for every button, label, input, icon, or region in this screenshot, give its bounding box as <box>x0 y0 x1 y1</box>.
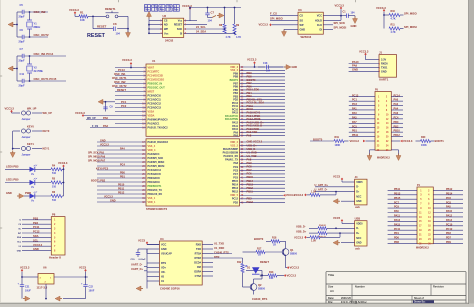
svg-text:PB14: PB14 <box>232 184 239 187</box>
chip U4 pins <box>147 243 213 283</box>
svg-text:U3: U3 <box>298 8 302 12</box>
svg-text:PC11: PC11 <box>33 225 40 229</box>
svg-text:C6: C6 <box>20 28 24 32</box>
svg-text:U6: U6 <box>43 266 47 270</box>
svg-text:U_ART_D-: U_ART_D- <box>315 188 328 192</box>
svg-text:TXD1: TXD1 <box>381 66 388 69</box>
svg-text:KEY0: KEY0 <box>43 129 50 133</box>
svg-text:GND: GND <box>110 200 116 203</box>
svg-text:VCC3.3: VCC3.3 <box>100 144 109 147</box>
svg-text:PC10: PC10 <box>446 223 453 226</box>
svg-text:PA5/SPI_SCK: PA5/SPI_SCK <box>148 157 164 160</box>
chip U1 part B <box>146 139 240 211</box>
svg-text:PC4: PC4 <box>394 116 399 119</box>
capacitor C7a <box>19 47 25 62</box>
svg-text:PB2/BOOT1: PB2/BOOT1 <box>148 185 162 188</box>
svg-text:SCL: SCL <box>33 238 39 242</box>
regulator U6 1117-3.3 <box>37 266 55 290</box>
svg-text:Drawn By:: Drawn By: <box>414 302 426 304</box>
svg-text:File:: File: <box>328 301 333 304</box>
svg-text:PD2: PD2 <box>233 201 238 204</box>
svg-text:PA6: PA6 <box>394 112 399 115</box>
svg-text:1K: 1K <box>258 254 261 257</box>
wire <box>189 7 191 21</box>
svg-text:GND: GND <box>351 24 357 28</box>
net BOOT0 <box>310 138 334 142</box>
wire <box>13 148 42 150</box>
svg-text:RESET: RESET <box>97 25 107 29</box>
U1 right net labels A <box>247 71 265 137</box>
svg-text:PD6: PD6 <box>394 237 399 240</box>
net SPI_MOSI <box>404 25 417 29</box>
label RESET <box>87 33 106 39</box>
power VCC3.3 <box>350 139 376 143</box>
jumper KEY0 <box>21 129 30 139</box>
svg-text:PA15: PA15 <box>394 223 401 226</box>
svg-text:NO: NO <box>164 24 168 27</box>
power VCC3.3 <box>284 274 297 278</box>
svg-text:PC1: PC1 <box>121 100 127 104</box>
svg-text:PC8: PC8 <box>446 201 451 204</box>
svg-text:CTS#: CTS# <box>195 275 202 278</box>
svg-text:Q2: Q2 <box>258 283 262 287</box>
svg-text:PA4: PA4 <box>394 108 399 111</box>
svg-text:U_ART_D+: U_ART_D+ <box>315 183 329 187</box>
svg-text:OSC_IN1: OSC_IN1 <box>114 72 126 76</box>
svg-text:RESET: RESET <box>174 24 183 27</box>
svg-text:USB_D-: USB_D- <box>247 147 257 151</box>
chip U4 CH340 <box>159 237 202 290</box>
svg-text:CH340_RTS: CH340_RTS <box>252 297 267 301</box>
connector P8 pins <box>17 216 56 252</box>
svg-text:PB3: PB3 <box>33 216 39 220</box>
svg-text:VCC3.3: VCC3.3 <box>350 139 360 143</box>
svg-text:R1: R1 <box>80 11 84 15</box>
ground <box>333 199 355 204</box>
wire <box>13 130 42 132</box>
svg-text:PA10: PA10 <box>352 60 359 64</box>
svg-text:PC8: PC8 <box>233 169 238 172</box>
connector USB2 <box>355 217 367 251</box>
svg-text:VCC5: VCC5 <box>79 266 87 270</box>
wire <box>17 55 66 57</box>
chip U1 right pins A <box>225 66 285 138</box>
wire <box>17 11 48 13</box>
transistor Q2 <box>243 276 266 291</box>
wire <box>63 168 65 196</box>
power VCC3.3 <box>75 111 115 117</box>
net OSC_IN1 <box>114 72 126 76</box>
svg-text:VSS_1: VSS_1 <box>148 197 156 200</box>
svg-text:DTR#: DTR# <box>194 257 201 260</box>
svg-text:VCC: VCC <box>161 243 166 246</box>
net UART_D- <box>131 263 147 267</box>
power VCC3.3 <box>335 3 345 16</box>
svg-text:PC12: PC12 <box>232 198 239 201</box>
svg-text:PA4: PA4 <box>120 148 125 151</box>
svg-text:SPI_MOSI: SPI_MOSI <box>334 25 347 29</box>
svg-text:Q1: Q1 <box>290 248 294 252</box>
svg-text:PA0: PA0 <box>394 99 399 102</box>
transistor Q1 <box>282 248 297 256</box>
svg-text:104: 104 <box>116 32 121 36</box>
svg-text:F_CS: F_CS <box>270 12 277 16</box>
svg-text:RTS: RTS <box>161 262 166 265</box>
net OSC_OUT2 <box>34 33 50 37</box>
LED row R4 <box>5 165 64 176</box>
svg-text:PA8: PA8 <box>247 157 252 161</box>
svg-text:C22: C22 <box>89 286 94 289</box>
svg-text:PA10/U1_RX: PA10/U1_RX <box>224 155 239 158</box>
svg-text:U1: U1 <box>152 59 156 63</box>
svg-text:RXD0: RXD0 <box>381 63 388 66</box>
wire <box>16 12 18 37</box>
svg-text:10K: 10K <box>80 18 85 22</box>
svg-text:KEY1: KEY1 <box>27 142 34 146</box>
svg-text:4.7K: 4.7K <box>226 36 231 39</box>
resistor R17 <box>243 248 284 257</box>
power VCC3.3 <box>69 8 79 16</box>
svg-text:R18: R18 <box>272 237 277 240</box>
svg-text:PC9: PC9 <box>394 206 399 209</box>
svg-text:Title: Title <box>328 273 334 277</box>
svg-text:SDA: SDA <box>33 234 39 238</box>
capacitor C1 <box>343 10 356 18</box>
svg-text:VCC3.3: VCC3.3 <box>259 23 269 27</box>
resistor R18 <box>271 237 280 247</box>
svg-text:8MHz: 8MHz <box>34 25 41 29</box>
resistor R10 <box>383 10 403 21</box>
svg-text:PC4: PC4 <box>120 164 125 167</box>
svg-text:E:\2.1\..\学习版.SchDoc: E:\2.1\..\学习版.SchDoc <box>341 300 367 304</box>
svg-text:CS: CS <box>300 15 304 18</box>
svg-text:OSC_OUT1 PC15: OSC_OUT1 PC15 <box>34 77 57 81</box>
svg-text:PA7: PA7 <box>352 121 357 124</box>
svg-text:UART_D+: UART_D+ <box>131 267 144 271</box>
svg-text:VCC3.3: VCC3.3 <box>69 8 79 12</box>
svg-text:PA8: PA8 <box>247 133 252 137</box>
LED row R5 <box>5 178 64 189</box>
svg-text:J1: J1 <box>379 50 382 54</box>
svg-text:VCC3.3: VCC3.3 <box>287 274 297 278</box>
svg-text:PA12/USBDP: PA12/USBDP <box>223 148 238 151</box>
net U_ART_D+ <box>315 183 329 187</box>
power VCC3.3 <box>359 50 379 60</box>
net WK_UP <box>43 111 53 115</box>
resistor R11 <box>389 24 404 35</box>
svg-text:100K: 100K <box>421 144 427 147</box>
net OSC_OUT2 <box>112 84 127 88</box>
resistor R20 <box>416 136 435 147</box>
svg-text:P8: P8 <box>52 212 56 216</box>
wire <box>12 131 14 150</box>
svg-text:104: 104 <box>351 11 356 14</box>
svg-text:4.7K: 4.7K <box>236 36 241 39</box>
svg-text:PC4/ADC14: PC4/ADC14 <box>148 169 162 172</box>
svg-text:R11: R11 <box>391 24 396 27</box>
power VCC3.3 <box>294 193 310 197</box>
svg-text:PB0: PB0 <box>394 121 399 124</box>
svg-text:PA0/WKUP/ADC0: PA0/WKUP/ADC0 <box>148 118 169 121</box>
net PC2 <box>121 104 127 108</box>
svg-text:Revision: Revision <box>433 285 444 289</box>
svg-text:PA10: PA10 <box>446 210 453 213</box>
svg-text:R12: R12 <box>237 261 242 264</box>
svg-text:SDA: SDA <box>17 236 22 239</box>
svg-text:TXD: TXD <box>196 248 201 251</box>
svg-text:W25X16: W25X16 <box>301 35 312 39</box>
svg-text:R19: R19 <box>335 136 340 139</box>
svg-text:BOOT0: BOOT0 <box>254 237 264 241</box>
svg-text:C7: C7 <box>20 47 24 51</box>
svg-text:U1_TXD: U1_TXD <box>247 154 257 158</box>
net F_CS <box>90 124 115 128</box>
svg-text:U1_TXD: U1_TXD <box>214 241 224 245</box>
net F_CS <box>270 12 293 16</box>
svg-text:PB10: PB10 <box>394 130 401 133</box>
svg-text:PC9: PC9 <box>233 166 238 169</box>
svg-text:Vss: Vss <box>164 32 169 35</box>
svg-text:PA2/U2_TX/ADC2: PA2/U2_TX/ADC2 <box>148 126 169 129</box>
svg-text:10UF: 10UF <box>89 289 95 292</box>
net U_ART_D- <box>315 188 328 192</box>
svg-text:C11: C11 <box>20 72 25 76</box>
svg-text:PB12: PB12 <box>118 192 125 195</box>
power VCC3.3 <box>58 161 68 169</box>
svg-text:VCC3.3: VCC3.3 <box>104 196 113 199</box>
svg-text:PA1/ADC1: PA1/ADC1 <box>148 122 161 125</box>
svg-text:BOOT1: BOOT1 <box>435 139 445 143</box>
net KEY1 <box>27 142 50 151</box>
svg-text:SPI_SCK: SPI_SCK <box>334 21 346 25</box>
net SPI_MISO <box>270 16 293 20</box>
svg-text:UART_D-: UART_D- <box>131 263 143 267</box>
svg-text:SPI_MOSI PA7: SPI_MOSI PA7 <box>88 160 106 163</box>
svg-text:PA14: PA14 <box>446 219 453 222</box>
svg-text:510: 510 <box>52 172 57 175</box>
svg-text:PB12: PB12 <box>232 191 239 194</box>
svg-text:20pF: 20pF <box>19 59 25 63</box>
net DTR <box>213 255 243 259</box>
svg-text:VCC3.3: VCC3.3 <box>33 243 43 247</box>
power VCC3.3 <box>20 266 30 277</box>
svg-text:OSC_OUT2: OSC_OUT2 <box>34 33 50 37</box>
svg-text:RESET: RESET <box>260 260 269 264</box>
svg-text:VSS_2: VSS_2 <box>230 144 238 147</box>
connector USB1 pins <box>315 181 363 203</box>
power VCC3.3 <box>5 106 21 113</box>
chip U1 STM32F103RCT6 part A <box>146 59 240 136</box>
svg-text:GND: GND <box>6 191 12 195</box>
svg-text:PB11/U3_RX: PB11/U3_RX <box>148 193 163 196</box>
svg-text:PC12: PC12 <box>247 200 254 204</box>
svg-text:SCK: SCK <box>177 28 182 31</box>
svg-text:RXD: RXD <box>196 243 201 246</box>
svg-text:2021/1/8: 2021/1/8 <box>341 297 351 300</box>
net CH340_RTS <box>213 250 232 254</box>
svg-text:U2: U2 <box>163 14 167 18</box>
svg-text:LED1 PB0: LED1 PB0 <box>6 178 19 182</box>
svg-text:USB_D+: USB_D+ <box>247 143 258 147</box>
chip U3 pins <box>284 15 341 32</box>
svg-text:GND: GND <box>356 242 362 245</box>
resistor R8 <box>219 7 231 39</box>
svg-text:PB4: PB4 <box>33 221 39 225</box>
power VCC3.3 <box>287 266 300 270</box>
svg-text:PC5: PC5 <box>352 125 357 128</box>
svg-text:PB13: PB13 <box>247 182 254 186</box>
svg-text:PD0/OSC_IN: PD0/OSC_IN <box>148 82 163 85</box>
connector P6 <box>416 184 433 250</box>
svg-text:PB11: PB11 <box>247 189 254 193</box>
ground <box>22 293 30 301</box>
svg-text:U1_RXD: U1_RXD <box>247 150 257 154</box>
svg-text:KEY0: KEY0 <box>27 125 34 129</box>
svg-text:GND: GND <box>381 70 387 73</box>
svg-text:RI#: RI# <box>197 266 202 269</box>
svg-text:PC3: PC3 <box>352 103 357 106</box>
wire <box>148 15 150 34</box>
svg-text:Jumper: Jumper <box>22 118 31 121</box>
svg-text:VSS_4: VSS_4 <box>148 145 156 148</box>
svg-text:PA4/ADC4: PA4/ADC4 <box>148 153 161 156</box>
svg-text:PA8: PA8 <box>446 206 451 209</box>
ground <box>208 13 225 18</box>
svg-text:PD8: PD8 <box>394 241 399 244</box>
svg-text:GND: GND <box>352 68 358 72</box>
svg-text:VDD_1: VDD_1 <box>148 201 157 204</box>
svg-text:PA11: PA11 <box>394 215 401 218</box>
wire <box>118 16 129 29</box>
svg-text:C7: C7 <box>211 11 215 15</box>
svg-text:Jumper: Jumper <box>22 154 31 157</box>
svg-text:WK_UP: WK_UP <box>27 107 37 111</box>
net WK_UP <box>86 116 115 120</box>
resistor R14 <box>318 224 355 230</box>
power VCC3.3 <box>259 23 294 27</box>
svg-text:Header 8: Header 8 <box>49 256 61 260</box>
net RESET <box>97 25 107 29</box>
svg-text:VCC3.3: VCC3.3 <box>294 235 304 239</box>
svg-text:PB10: PB10 <box>118 184 125 187</box>
svg-text:V3/UCAP: V3/UCAP <box>161 252 172 255</box>
svg-text:PC12: PC12 <box>33 230 40 234</box>
net U1_RXD <box>214 246 224 250</box>
svg-text:PC1/ADC11: PC1/ADC11 <box>148 98 162 101</box>
svg-text:PC0/ADC10: PC0/ADC10 <box>148 94 162 97</box>
svg-text:PA8: PA8 <box>233 135 238 138</box>
svg-text:USB_D-: USB_D- <box>296 225 306 229</box>
svg-text:PA3/U2_RX/ADC3: PA3/U2_RX/ADC3 <box>148 141 169 144</box>
svg-text:C21: C21 <box>25 286 30 289</box>
ground <box>351 16 358 28</box>
connector UART1 <box>379 50 397 81</box>
capacitor C5 <box>19 3 25 18</box>
svg-text:CLK: CLK <box>317 24 322 27</box>
svg-text:VCC3.3: VCC3.3 <box>58 161 68 165</box>
net USB_D+ <box>296 229 318 233</box>
svg-text:PB2: PB2 <box>394 125 399 128</box>
svg-text:VCC3.3: VCC3.3 <box>290 266 300 270</box>
net OSC_OUT1 <box>112 76 127 80</box>
svg-text:PC7: PC7 <box>233 173 238 176</box>
svg-text:20pF: 20pF <box>19 40 25 44</box>
svg-text:PD2: PD2 <box>247 197 253 201</box>
wire <box>93 16 128 28</box>
svg-text:20pF: 20pF <box>19 15 25 19</box>
svg-text:PA5: PA5 <box>352 116 357 119</box>
resistor R13 <box>262 271 284 280</box>
resistor R1 <box>79 11 88 23</box>
ground <box>333 240 355 245</box>
svg-text:Sheet of: Sheet of <box>414 297 424 300</box>
jumper WK_UP <box>21 107 36 122</box>
svg-text:R10: R10 <box>391 10 396 13</box>
svg-text:PC2: PC2 <box>121 104 127 108</box>
svg-text:0.01uF: 0.01uF <box>139 259 147 261</box>
svg-text:USB_D+: USB_D+ <box>296 229 307 233</box>
net OSC_IN2 <box>114 80 126 84</box>
net 24_SCL <box>196 25 206 29</box>
svg-text:PC1: PC1 <box>352 99 357 102</box>
svg-text:OSC_OUT2: OSC_OUT2 <box>112 84 127 88</box>
connector P5 pins <box>349 94 403 151</box>
svg-text:PC14/OSC32I: PC14/OSC32I <box>148 74 164 77</box>
svg-text:VCC3.3: VCC3.3 <box>75 111 85 115</box>
net PC13 <box>118 68 125 72</box>
svg-text:DTR: DTR <box>214 255 219 259</box>
svg-text:USB: USB <box>355 217 361 221</box>
svg-text:PC13: PC13 <box>118 68 125 72</box>
svg-text:10K: 10K <box>269 277 274 280</box>
svg-text:PB13: PB13 <box>394 192 401 195</box>
ground <box>55 293 86 301</box>
svg-text:PC13/RTC: PC13/RTC <box>148 70 160 73</box>
svg-text:PB11: PB11 <box>352 134 359 137</box>
power VCC3.3 <box>247 58 257 68</box>
wire <box>17 80 66 82</box>
svg-text:A4: A4 <box>330 289 334 293</box>
svg-text:PA6/SPI_MISO: PA6/SPI_MISO <box>148 161 165 164</box>
svg-text:4.7K: 4.7K <box>391 18 396 21</box>
svg-text:SPI_MISO PA6: SPI_MISO PA6 <box>88 156 106 159</box>
svg-text:510: 510 <box>52 185 57 188</box>
svg-text:GND: GND <box>161 248 167 251</box>
resistor R15 <box>318 232 355 239</box>
svg-text:PC12: PC12 <box>446 228 453 231</box>
chip U2 24C02 <box>163 14 184 43</box>
svg-text:GND: GND <box>356 200 362 203</box>
U1 right net labels B <box>247 140 263 204</box>
svg-text:VCC3.3: VCC3.3 <box>376 6 386 10</box>
wire <box>21 276 88 278</box>
svg-text:KEY0 PC5: KEY0 PC5 <box>96 168 109 171</box>
svg-text:UD+: UD+ <box>161 266 167 269</box>
svg-text:24_SCL: 24_SCL <box>196 25 206 29</box>
svg-text:NCC: NCC <box>356 195 361 198</box>
net RESET <box>117 88 126 92</box>
svg-text:VCC3.3: VCC3.3 <box>403 139 413 143</box>
svg-text:R20: R20 <box>421 136 426 139</box>
svg-text:DSR#: DSR# <box>194 270 201 273</box>
svg-text:4.7K: 4.7K <box>391 31 396 34</box>
svg-text:usb: usb <box>355 247 360 251</box>
net OSC_IN2 <box>34 10 46 14</box>
resistor R22 <box>310 233 340 242</box>
connector USB2 pins <box>356 222 363 244</box>
svg-text:PD1: PD1 <box>394 232 399 235</box>
svg-text:PD1/OSC_OUT: PD1/OSC_OUT <box>148 86 166 89</box>
